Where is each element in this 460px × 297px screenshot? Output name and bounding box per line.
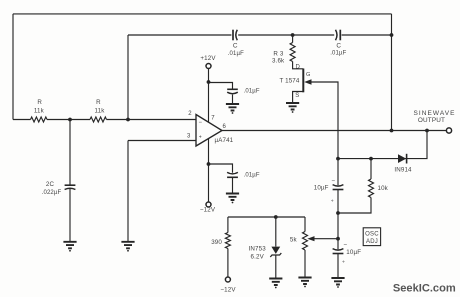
svg-text:.01µF: .01µF [228, 51, 244, 57]
svg-text:S: S [295, 93, 299, 99]
svg-text:C: C [233, 42, 238, 49]
svg-text:6.2V: 6.2V [251, 254, 265, 261]
svg-text:SeekIC.com: SeekIC.com [393, 282, 456, 294]
svg-text:D: D [296, 65, 301, 71]
svg-text:+12V: +12V [200, 55, 216, 62]
svg-text:2: 2 [188, 111, 192, 117]
svg-text:5k: 5k [290, 236, 298, 243]
svg-text:2C: 2C [46, 181, 55, 188]
svg-text:OUTPUT: OUTPUT [418, 117, 445, 124]
svg-text:−12V: −12V [220, 287, 236, 294]
svg-text:7: 7 [211, 116, 215, 122]
svg-text:+: + [342, 260, 345, 266]
svg-text:11k: 11k [95, 108, 106, 115]
svg-text:−: − [343, 241, 347, 248]
svg-text:10µF: 10µF [314, 185, 329, 192]
svg-text:10k: 10k [378, 185, 389, 192]
svg-text:+: + [331, 199, 334, 205]
svg-text:.01µF: .01µF [330, 51, 346, 57]
svg-text:3.6k: 3.6k [272, 58, 285, 65]
svg-text:.01µF: .01µF [244, 173, 260, 179]
svg-text:−: − [198, 120, 202, 126]
svg-text:.01µF: .01µF [244, 89, 260, 95]
svg-text:6: 6 [223, 124, 227, 130]
svg-text:.022µF: .022µF [42, 190, 62, 196]
svg-text:ADJ: ADJ [366, 239, 378, 245]
svg-text:3: 3 [187, 134, 191, 140]
svg-text:+: + [199, 135, 202, 141]
svg-text:−: − [331, 178, 335, 185]
svg-text:IN753: IN753 [249, 246, 267, 253]
svg-text:IN914: IN914 [394, 166, 412, 173]
svg-text:R: R [96, 99, 101, 106]
svg-text:OSC: OSC [365, 231, 379, 237]
svg-text:R 3: R 3 [273, 50, 283, 57]
svg-text:T 1574: T 1574 [279, 77, 299, 84]
svg-text:−12V: −12V [200, 207, 216, 214]
svg-text:C: C [336, 42, 341, 49]
svg-text:R: R [37, 99, 42, 106]
svg-text:11k: 11k [34, 108, 45, 115]
svg-text:µA741: µA741 [215, 137, 234, 144]
svg-text:SINEWAVE: SINEWAVE [414, 110, 456, 117]
svg-text:10µF: 10µF [346, 249, 361, 256]
svg-text:390: 390 [211, 239, 222, 246]
svg-text:G: G [306, 72, 311, 78]
